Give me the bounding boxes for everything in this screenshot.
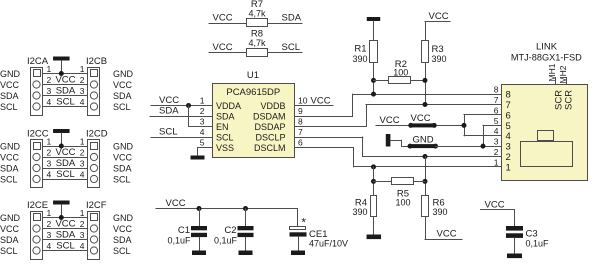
net label VCC — [55, 147, 75, 158]
wire pin10 VDDB to VCC — [294, 105, 334, 107]
svg-text:VCC: VCC — [437, 229, 457, 240]
svg-text:I2CB: I2CB — [86, 56, 107, 67]
label VCC right — [113, 80, 133, 90]
svg-text:1: 1 — [506, 162, 511, 173]
svg-text:10: 10 — [298, 96, 308, 106]
svg-text:SCL: SCL — [56, 97, 74, 108]
net label SDA — [282, 13, 302, 24]
svg-text:VDDB: VDDB — [260, 101, 285, 111]
label GND left — [0, 69, 21, 79]
pin MH1 — [547, 63, 557, 85]
resistor R6 — [422, 196, 448, 218]
wire I2CC pin2 to I2CD pin2 — [43, 157, 89, 159]
svg-text:VCC: VCC — [0, 80, 20, 90]
svg-text:47uF/10V: 47uF/10V — [309, 239, 348, 249]
wire VCC feed to link — [376, 125, 465, 127]
svg-text:5: 5 — [200, 138, 205, 148]
svg-text:GND: GND — [113, 69, 134, 79]
net label VCC C3 — [485, 199, 505, 210]
svg-text:100: 100 — [393, 68, 408, 78]
svg-text:4: 4 — [506, 131, 511, 142]
net label VCC rail — [166, 198, 186, 209]
wire GND split to pin5 — [483, 125, 503, 147]
label SCL right — [113, 174, 131, 184]
wire I2CA pin2 to I2CB pin2 — [43, 84, 89, 86]
ground — [53, 129, 70, 147]
net label VCC — [213, 42, 233, 53]
svg-text:4: 4 — [80, 97, 85, 107]
svg-text:VCC: VCC — [429, 11, 449, 22]
svg-text:4,7k: 4,7k — [248, 8, 266, 18]
capacitor C1 — [167, 208, 207, 251]
svg-text:100: 100 — [395, 198, 410, 208]
label GND right — [113, 141, 134, 151]
svg-text:9: 9 — [298, 106, 303, 116]
connector I2CE — [27, 200, 48, 260]
svg-text:SDA: SDA — [159, 106, 179, 117]
svg-text:SCL: SCL — [113, 246, 131, 256]
wire pin5 VSS to ground — [197, 147, 213, 156]
connector LINK MTJ-88GX1-FSD — [502, 42, 588, 181]
ground link shield — [386, 134, 391, 147]
svg-text:SDA: SDA — [0, 91, 19, 101]
wire I2CC pin4 to I2CD pin4 — [43, 179, 89, 181]
net label VCC — [55, 75, 75, 86]
net label SDA — [56, 158, 76, 169]
svg-text:*: * — [302, 218, 307, 230]
pin numbers row 3 — [47, 159, 85, 169]
svg-text:SCL: SCL — [56, 169, 74, 180]
svg-text:6: 6 — [506, 110, 511, 121]
net label VCC — [159, 95, 179, 106]
ground U1 VSS — [191, 156, 205, 160]
wire I2CE pin4 to I2CF pin4 — [43, 250, 89, 252]
svg-text:VDDA: VDDA — [216, 101, 241, 111]
svg-text:VCC: VCC — [411, 113, 431, 124]
junction VCC/EN — [186, 103, 191, 108]
junction ferrite GND left — [408, 144, 413, 149]
svg-text:GND: GND — [0, 213, 21, 223]
op IC U1 PCA9615DP — [213, 70, 295, 158]
ground C2 — [239, 251, 253, 256]
junction VCC split — [462, 123, 467, 128]
label SDA left — [0, 91, 19, 101]
svg-text:3: 3 — [47, 86, 52, 96]
svg-text:1: 1 — [47, 64, 52, 74]
ground C1 — [192, 251, 206, 256]
wire R7 to SDA — [268, 23, 303, 25]
svg-text:2: 2 — [200, 106, 205, 116]
svg-text:8: 8 — [494, 85, 499, 95]
junction DSDAM line — [371, 92, 376, 97]
wire pin8 DSDAP to link pin7 — [294, 104, 502, 127]
wire R5 right — [413, 181, 426, 183]
U1 left pin numbers — [200, 96, 205, 148]
wire R6 branch — [425, 156, 427, 196]
LINK outside pin numbers — [494, 85, 499, 168]
net label SCL — [56, 241, 74, 252]
net label VCC — [213, 13, 233, 24]
svg-text:4: 4 — [494, 126, 499, 136]
svg-text:VCC: VCC — [113, 224, 133, 234]
wire VCC to R8 — [209, 52, 247, 54]
wire EN jumper to pin3 — [188, 105, 213, 127]
svg-text:GND: GND — [0, 69, 21, 79]
pin name SCR 2 — [563, 90, 574, 110]
svg-text:DSCLP: DSCLP — [255, 132, 285, 142]
svg-text:1: 1 — [200, 96, 205, 106]
svg-text:SDA: SDA — [0, 163, 19, 173]
svg-text:MH1: MH1 — [547, 63, 557, 81]
svg-text:1: 1 — [80, 64, 85, 74]
junction R2/R3 — [423, 78, 428, 83]
svg-text:VCC: VCC — [55, 219, 75, 230]
svg-text:0,1uF: 0,1uF — [167, 236, 191, 246]
svg-text:VCC: VCC — [55, 147, 75, 158]
net label SDA — [56, 230, 76, 241]
junction ferrite VCC left — [408, 123, 413, 128]
ferrite bar VCC — [411, 113, 435, 127]
label GND right — [113, 213, 134, 223]
svg-text:VCC: VCC — [113, 152, 133, 162]
label GND left — [0, 213, 21, 223]
svg-text:5: 5 — [494, 116, 499, 126]
wire VCC to pin1 VDDA — [151, 105, 213, 107]
svg-text:3: 3 — [506, 142, 511, 153]
svg-text:2: 2 — [506, 152, 511, 163]
junction pin1 gnd — [59, 71, 64, 76]
svg-text:2: 2 — [80, 75, 85, 85]
connector I2CA — [27, 56, 49, 116]
connector I2CB — [86, 56, 107, 116]
svg-text:8: 8 — [506, 90, 511, 101]
pin name SCR 1 — [554, 90, 565, 110]
svg-text:2: 2 — [47, 219, 52, 229]
svg-text:2: 2 — [47, 75, 52, 85]
wire R3 bottom to DSDAP line — [425, 63, 427, 106]
svg-text:GND: GND — [0, 141, 21, 151]
svg-text:SCL: SCL — [0, 102, 18, 112]
svg-text:4: 4 — [47, 241, 52, 251]
label SCL right — [113, 246, 131, 256]
wire SDA to pin2 — [150, 116, 213, 118]
junction ferrite VCC right — [432, 123, 437, 128]
svg-text:SDA: SDA — [113, 235, 132, 245]
junction DSDAP line — [423, 102, 428, 107]
net label VCC feed — [380, 115, 400, 126]
wire SCL to pin4 — [151, 137, 213, 139]
svg-text:0,1uF: 0,1uF — [526, 239, 550, 249]
wire I2CE pin1 to I2CF pin1 — [43, 217, 89, 219]
wire R2 left — [373, 80, 389, 82]
net label VCC pin10 — [311, 96, 331, 107]
junction C1 — [197, 206, 202, 211]
pin numbers row 4 — [47, 170, 85, 180]
wire pin7 DSCLP to link pin2 — [294, 137, 502, 158]
label GND left — [0, 141, 21, 151]
svg-text:SDA: SDA — [113, 163, 132, 173]
resistor R1 — [352, 41, 377, 65]
label SCL left — [0, 246, 18, 256]
svg-text:SCL: SCL — [0, 174, 18, 184]
wire VCC split to pins 6 and 4 — [464, 114, 503, 136]
svg-text:4: 4 — [80, 241, 85, 251]
connector I2CD — [86, 128, 108, 187]
svg-text:1: 1 — [494, 157, 499, 167]
label SDA left — [0, 163, 19, 173]
net label VCC R6 — [437, 229, 457, 240]
svg-text:8: 8 — [298, 117, 303, 127]
svg-text:SDA: SDA — [113, 91, 132, 101]
wire VCC to C3 — [480, 209, 515, 226]
ground R1 top — [367, 17, 381, 41]
pin numbers row 4 — [47, 241, 85, 251]
svg-text:7: 7 — [494, 95, 499, 105]
svg-text:MH2: MH2 — [558, 65, 568, 83]
svg-text:I2CE: I2CE — [27, 200, 48, 211]
wire VCC to R7 — [209, 23, 247, 25]
svg-text:0,1uF: 0,1uF — [214, 236, 238, 246]
svg-text:3: 3 — [80, 159, 85, 169]
svg-text:SCL: SCL — [113, 102, 131, 112]
wire I2CA pin1 to I2CB pin1 — [43, 73, 89, 75]
junction DSCLP line R6 — [423, 154, 428, 159]
svg-text:VCC: VCC — [159, 95, 179, 106]
svg-text:390: 390 — [432, 54, 447, 64]
svg-text:3: 3 — [47, 230, 52, 240]
svg-text:4: 4 — [47, 170, 52, 180]
jack drawing — [521, 131, 573, 167]
svg-text:1: 1 — [80, 137, 85, 147]
svg-text:390: 390 — [352, 54, 367, 64]
svg-text:4: 4 — [200, 127, 205, 137]
wire R4 bottom — [373, 217, 375, 236]
svg-text:SCL: SCL — [113, 174, 131, 184]
svg-text:SCL: SCL — [56, 241, 74, 252]
wire I2CA pin4 to I2CB pin4 — [43, 106, 89, 108]
svg-text:SDA: SDA — [56, 230, 76, 241]
U1 right pin numbers — [298, 96, 308, 148]
svg-text:SDA: SDA — [56, 86, 76, 97]
net label SCL — [282, 42, 300, 53]
label VCC left — [0, 80, 20, 90]
label SDA right — [113, 163, 132, 173]
net label SDA — [56, 86, 76, 97]
svg-text:DSCLM: DSCLM — [254, 143, 286, 153]
svg-text:GND: GND — [113, 141, 134, 151]
wire I2CC pin1 to I2CD pin1 — [43, 146, 89, 148]
wire R1 bottom to DSDAM line — [373, 63, 375, 95]
net label SDA — [159, 106, 179, 117]
pin numbers row 1 — [47, 64, 85, 74]
resistor R7 — [247, 0, 268, 26]
junction DSCLM line R4 — [371, 164, 376, 169]
svg-text:R1: R1 — [354, 44, 366, 55]
svg-text:VCC: VCC — [311, 96, 331, 107]
wire VCC rail — [156, 208, 299, 210]
wire pin9 DSDAM to link pin8 — [294, 94, 502, 117]
pin numbers row 3 — [47, 86, 85, 96]
svg-text:VCC: VCC — [113, 80, 133, 90]
svg-text:SDA: SDA — [216, 111, 235, 121]
ground — [53, 201, 70, 219]
wire I2CE pin3 to I2CF pin3 — [43, 239, 89, 241]
svg-text:VCC: VCC — [55, 75, 75, 86]
resistor R4 — [352, 196, 376, 218]
label SCL left — [0, 174, 18, 184]
wire R3 top to VCC — [425, 21, 451, 41]
svg-text:SCL: SCL — [0, 246, 18, 256]
resistor R8 — [247, 29, 268, 57]
ground C3 — [507, 254, 522, 259]
resistor R5 — [392, 178, 414, 208]
pin numbers row 3 — [47, 230, 85, 240]
junction pin1 gnd — [59, 144, 64, 149]
pin MH2 — [558, 65, 568, 85]
wire R8 to SCL — [268, 52, 303, 54]
svg-text:1: 1 — [80, 208, 85, 218]
label SDA right — [113, 235, 132, 245]
svg-text:VCC: VCC — [213, 42, 233, 53]
svg-text:DSDAM: DSDAM — [253, 111, 286, 121]
pin numbers row 2 — [47, 75, 85, 85]
svg-text:C2: C2 — [224, 225, 236, 236]
svg-text:I2CF: I2CF — [86, 200, 107, 211]
net label VCC R3 — [429, 11, 449, 22]
label VCC left — [0, 152, 20, 162]
svg-text:DSDAP: DSDAP — [254, 122, 285, 132]
connector I2CC — [27, 128, 49, 187]
resistor R3 — [422, 41, 447, 65]
svg-text:2: 2 — [494, 147, 499, 157]
label SDA right — [113, 91, 132, 101]
connector I2CF — [86, 200, 107, 260]
wire I2CE pin2 to I2CF pin2 — [43, 228, 89, 230]
label VCC right — [113, 152, 133, 162]
svg-text:VCC: VCC — [485, 199, 505, 210]
capacitor C3 — [506, 226, 549, 254]
capacitor CE1 electrolytic — [290, 208, 349, 251]
svg-text:PCA9615DP: PCA9615DP — [226, 87, 280, 98]
svg-text:SCR: SCR — [563, 90, 574, 110]
resistor R2 — [389, 59, 411, 84]
capacitor C2 — [214, 208, 254, 251]
svg-text:VCC: VCC — [0, 152, 20, 162]
svg-text:3: 3 — [80, 230, 85, 240]
svg-text:3: 3 — [47, 159, 52, 169]
svg-text:2: 2 — [80, 219, 85, 229]
net label SCL — [56, 97, 74, 108]
ground — [53, 57, 70, 75]
junction R5/R6 — [423, 179, 428, 184]
label VCC right — [113, 224, 133, 234]
pin numbers row 2 — [47, 148, 85, 158]
net label SCL — [56, 169, 74, 180]
label SCL right — [113, 102, 131, 112]
svg-text:6: 6 — [298, 138, 303, 148]
junction R4/R5 — [371, 179, 376, 184]
svg-text:SCL: SCL — [282, 42, 300, 53]
svg-text:SCL: SCL — [216, 132, 234, 142]
junction C2 — [243, 206, 248, 211]
wire I2CA pin3 to I2CB pin3 — [43, 95, 89, 97]
svg-text:390: 390 — [433, 207, 448, 217]
svg-text:VCC: VCC — [0, 224, 20, 234]
svg-text:7: 7 — [506, 100, 511, 111]
svg-text:390: 390 — [352, 207, 367, 217]
label GND right — [113, 69, 134, 79]
pin numbers row 4 — [47, 97, 85, 107]
svg-text:VCC: VCC — [213, 13, 233, 24]
svg-text:VSS: VSS — [216, 143, 234, 153]
svg-text:2: 2 — [47, 148, 52, 158]
junction R1/R2 — [371, 78, 376, 83]
ferrite bar GND — [410, 134, 436, 148]
wire R5 left — [373, 181, 392, 183]
svg-text:3: 3 — [494, 137, 499, 147]
net label VCC — [55, 219, 75, 230]
svg-text:VCC: VCC — [380, 115, 400, 126]
wire GND to link pin3 — [435, 146, 502, 148]
svg-text:1: 1 — [47, 137, 52, 147]
wire R4 branch — [373, 166, 375, 195]
svg-text:7: 7 — [298, 127, 303, 137]
svg-text:1: 1 — [47, 208, 52, 218]
svg-text:MTJ-88GX1-FSD: MTJ-88GX1-FSD — [511, 53, 582, 63]
svg-text:3: 3 — [200, 117, 205, 127]
wire R6 bottom to VCC — [425, 217, 463, 240]
ground R4 — [367, 235, 382, 240]
svg-text:4: 4 — [80, 170, 85, 180]
junction ferrite GND right — [433, 144, 438, 149]
pin numbers row 2 — [47, 219, 85, 229]
label SCL left — [0, 102, 18, 112]
svg-text:4,7k: 4,7k — [248, 38, 266, 48]
svg-text:GND: GND — [413, 134, 434, 145]
label VCC left — [0, 224, 20, 234]
wire R2 right — [411, 80, 426, 82]
pin numbers row 1 — [47, 137, 85, 147]
wire ground to GND line — [390, 140, 411, 147]
svg-text:SDA: SDA — [56, 158, 76, 169]
ground CE1 — [291, 251, 305, 256]
svg-text:SCL: SCL — [159, 127, 177, 138]
svg-text:C1: C1 — [178, 225, 190, 236]
junction GND split — [481, 144, 486, 149]
svg-text:I2CD: I2CD — [86, 128, 108, 139]
svg-text:U1: U1 — [247, 70, 259, 81]
wire pin6 DSCLM to link pin1 — [294, 147, 502, 167]
svg-text:GND: GND — [113, 213, 134, 223]
svg-text:4: 4 — [47, 97, 52, 107]
svg-text:SDA: SDA — [0, 235, 19, 245]
svg-text:3: 3 — [80, 86, 85, 96]
svg-text:LINK: LINK — [536, 42, 558, 53]
label SDA left — [0, 235, 19, 245]
wire I2CC pin3 to I2CD pin3 — [43, 168, 89, 170]
svg-text:2: 2 — [80, 148, 85, 158]
svg-text:EN: EN — [216, 122, 229, 132]
junction pin1 gnd — [59, 215, 64, 220]
pin numbers row 1 — [47, 208, 85, 218]
net label SCL — [159, 127, 177, 138]
svg-text:6: 6 — [494, 105, 499, 115]
svg-text:VCC: VCC — [166, 198, 186, 209]
svg-text:SDA: SDA — [282, 13, 302, 24]
